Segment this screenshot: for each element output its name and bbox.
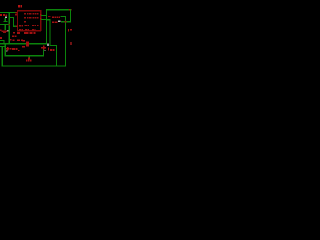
dark red tick on x50 near y16 xyxy=(48,16,51,17)
wire y45 x50-56 xyxy=(49,45,56,46)
pin number text near U1 left pin xyxy=(15,14,17,15)
red text bits at left edge y37 xyxy=(0,37,2,39)
wire stub y26 x13-17 xyxy=(13,26,17,27)
net label text (red) for y21 wire xyxy=(52,21,57,23)
red text row (12-16,35-37) xyxy=(12,35,16,37)
IC U1 body (dark red box) xyxy=(17,10,41,31)
junction dot (5,43) xyxy=(4,43,6,45)
junction dot at (65,21) dark red xyxy=(65,21,67,23)
wire bend x4 y40-43 xyxy=(3,40,4,43)
power terminal red cross near x7 y48 xyxy=(6,47,9,51)
white net label blob near y21 wire xyxy=(58,20,60,22)
pin tick U1 left pin2 xyxy=(16,25,18,27)
U1 interior dot y21 xyxy=(24,21,26,22)
grey dot at left power cross xyxy=(6,50,7,51)
capacitor C2 top plate y21 xyxy=(3,21,7,22)
red text C3 label (48-54,47-51) xyxy=(48,47,54,51)
wire vertical x2 y46-66 xyxy=(1,46,2,66)
red text C3 right side y29 xyxy=(68,29,72,31)
capacitor C2 lead x5 y18-21 xyxy=(5,18,6,21)
grey blob near bend (47-49,43-46) xyxy=(47,44,49,47)
U1 right pin tick y14 xyxy=(40,14,42,15)
wire vertical x50 y19-45 xyxy=(49,19,50,45)
wire y24 x0-9 xyxy=(0,24,9,25)
grey pixel right of ground bar xyxy=(7,30,8,31)
dark red blob right edge (70,42) xyxy=(70,42,72,45)
red text (9-17,48-49) xyxy=(10,48,20,51)
branch stub y19 x46-50 xyxy=(46,19,51,20)
wire vertical x56 y45-66 xyxy=(56,45,57,67)
U1 interior pin name text row y17 xyxy=(24,17,39,18)
wire vertical x46 y9-43 xyxy=(46,9,47,43)
label C2 text left xyxy=(0,14,7,16)
wire vertical x65 y16-66 xyxy=(65,16,66,66)
ground symbol left (dark red) xyxy=(1,30,7,33)
pin tick U1 left pin1 xyxy=(16,12,18,14)
net label text (red) for y16 wire xyxy=(52,16,60,18)
junction dot (9,24) xyxy=(8,24,10,26)
white net label blob left xyxy=(5,16,7,18)
wire x5 y24-30 xyxy=(5,24,6,30)
pin stub y19 x41-46 xyxy=(41,19,47,20)
U1 interior pin name text row y29 xyxy=(19,29,36,30)
ground terminal GND bottom-middle (dark red) xyxy=(26,58,32,62)
wire vertical x70 y9-21 xyxy=(70,9,71,22)
grey dot at mid power cross xyxy=(44,50,45,51)
trunk wire y43 x0-46 xyxy=(0,43,47,44)
red text below crystal (22-25,46-47) xyxy=(22,46,25,48)
U1 right pin tick y18 xyxy=(40,18,42,19)
red text row y39-41 x12-25 xyxy=(10,39,25,41)
wire vertical x9 from y12 to y43 xyxy=(8,12,9,43)
U1 interior pin name text row y25 xyxy=(19,25,39,27)
label under U1 (red text row y32) xyxy=(13,32,35,34)
wire y16 x61-65 xyxy=(60,16,65,17)
wire vertical x5 y43-55 xyxy=(5,43,6,56)
wire vertical x13 y17-26 xyxy=(13,17,14,27)
wire x29 y55-58 xyxy=(28,55,29,59)
crystal X1 red body on trunk xyxy=(26,41,29,46)
red text bit left edge y29 xyxy=(0,30,1,32)
wire y40 x0-4 left edge xyxy=(0,40,4,41)
lead x43 y49-55 xyxy=(43,49,44,55)
background xyxy=(0,0,72,72)
power terminal red cross above trunk y55 at x43 xyxy=(41,45,46,49)
wire y21 x61-70 xyxy=(61,21,71,22)
wire y9 top-right x46-69 xyxy=(46,9,70,10)
pin stub y15 x41-46 xyxy=(41,15,47,16)
wire net VCC top-left to U1 pin (y12) xyxy=(0,12,17,13)
trunk wire y66 x2-66 xyxy=(1,65,66,66)
wire y46 x0-5 xyxy=(0,46,6,47)
label U1 xyxy=(18,5,22,8)
U1 interior pin name text row y13 xyxy=(24,13,39,14)
junction dot at (70,9) dark red xyxy=(69,9,71,11)
trunk wire y55 x5-44 xyxy=(5,55,45,56)
wire branch y17 x9-13 xyxy=(9,17,14,18)
